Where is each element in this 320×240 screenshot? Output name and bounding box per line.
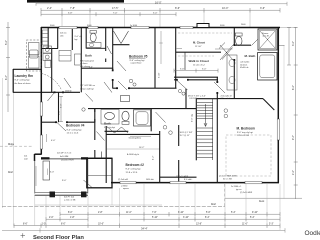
- svg-text:opener: opener: [123, 187, 129, 190]
- wic left wall: [175, 28, 177, 80]
- svg-text:16'-0": 16'-0": [155, 0, 162, 4]
- stair hall left wall: [178, 125, 180, 146]
- svg-text:5'-3": 5'-3": [269, 224, 274, 226]
- bath1 bottom wall: [86, 47, 106, 49]
- svg-text:42 x 48: 42 x 48: [263, 35, 269, 37]
- stair hall bottom wall: [160, 176, 197, 178]
- deck posts: [50, 192, 56, 198]
- m.bath toilet tank: [235, 33, 242, 36]
- bedroom4 top wall: [41, 121, 56, 123]
- window left wall bedroom4: [40, 135, 42, 149]
- wall x72.3: [71, 28, 73, 50]
- bedroom2 block walls: [106, 126, 160, 183]
- laundry door arc: [42, 74, 62, 91]
- svg-text:M. Closet: M. Closet: [193, 41, 205, 45]
- top row2 labels: [68, 12, 158, 14]
- svg-text:Laundry Rm: Laundry Rm: [15, 74, 34, 78]
- bedroom5 closet bottom: [113, 44, 130, 46]
- left wall jog: [35, 153, 42, 155]
- svg-text:A 1008 clg ht: A 1008 clg ht: [127, 153, 139, 156]
- svg-text:tile floor w/ drain: tile floor w/ drain: [15, 82, 32, 85]
- bedroom5 left wall: [112, 28, 114, 70]
- niche dim line x161: [159, 31, 163, 64]
- svg-text:16'-2": 16'-2": [139, 147, 145, 149]
- svg-text:12'-4 x 11'-6: 12'-4 x 11'-6: [67, 133, 80, 135]
- tray ceiling dashed: [226, 135, 271, 176]
- svg-text:8'-6": 8'-6": [175, 7, 180, 10]
- deck left rail: [34, 160, 36, 194]
- svg-text:Deck: Deck: [259, 201, 265, 203]
- exterior walls: [35, 27, 281, 183]
- top black header bar: [27, 0, 124, 3]
- svg-text:2'-2": 2'-2": [292, 170, 295, 175]
- top extension lines: [62, 11, 250, 27]
- svg-text:5'-4": 5'-4": [231, 212, 236, 214]
- laundry left wall: [12, 69, 14, 93]
- interior dim line x61: [59, 96, 63, 122]
- bay bump-out walls: [87, 158, 112, 188]
- svg-text:Bedroom #4: Bedroom #4: [66, 124, 85, 128]
- svg-text:Bath: Bath: [85, 54, 92, 58]
- svg-text:6'-4": 6'-4": [5, 75, 8, 80]
- svg-text:Bedroom #5: Bedroom #5: [129, 54, 148, 58]
- corridor wall upper: [174, 76, 218, 78]
- wic entry door X swings: [220, 45, 233, 60]
- svg-text:7'-8": 7'-8": [70, 7, 75, 10]
- roof dashed vertical right: [224, 184, 226, 207]
- svg-text:at 3660: at 3660: [121, 184, 127, 187]
- svg-text:17'-5": 17'-5": [112, 7, 118, 10]
- wall x81.3: [80, 28, 82, 92]
- svg-text:5'-10": 5'-10": [159, 72, 161, 78]
- svg-text:5'-6": 5'-6": [206, 212, 211, 214]
- toilet room bottom: [235, 44, 251, 46]
- bay door jamb ticks: [94, 152, 96, 159]
- svg-text:3'-0": 3'-0": [202, 69, 207, 71]
- corridor wall lower: [174, 79, 177, 81]
- bath2 vanity: [101, 110, 119, 125]
- svg-text:5'-6": 5'-6": [180, 69, 185, 71]
- svg-text:9'-0" clg: 9'-0" clg: [75, 36, 83, 38]
- interior walls bedroom5 block: [113, 28, 177, 89]
- svg-text:9'-0" ceiling hgt: 9'-0" ceiling hgt: [15, 79, 30, 82]
- wic shelf line left: [177, 48, 183, 50]
- svg-text:(2) 2x10 HDR: (2) 2x10 HDR: [176, 176, 189, 178]
- svg-text:1/2" GYP BD ea: 1/2" GYP BD ea: [80, 85, 96, 87]
- walk-in closet walls: [174, 28, 221, 183]
- laundry top wall: [13, 68, 41, 70]
- m.bath corner diagonal: [263, 99, 274, 110]
- bedroom2 closet bifold: [108, 127, 129, 133]
- svg-text:DN 16R: DN 16R: [190, 98, 198, 100]
- right short dim line: [287, 27, 291, 65]
- bedroom4 walls: [41, 109, 95, 123]
- right exterior wall: [277, 27, 279, 183]
- wic rod dashed: [178, 32, 232, 34]
- title scale marker: [21, 233, 26, 238]
- wic shelf line: [215, 48, 233, 50]
- svg-text:hgt: hgt: [75, 38, 78, 41]
- left exterior wall lower: [34, 154, 36, 161]
- svg-text:Bedroom #2: Bedroom #2: [126, 163, 145, 167]
- seating window sill: [130, 135, 151, 137]
- svg-text:8'-4": 8'-4": [205, 217, 210, 219]
- cabinet rect hall2: [75, 54, 82, 65]
- bottom overall dimension line: [2, 228, 285, 232]
- closet wall x48: [47, 28, 49, 49]
- laundry annex walls: [13, 69, 80, 93]
- bedroom2 right wall: [159, 131, 161, 183]
- bath1 right wall: [105, 28, 107, 51]
- symbol circles hall: [129, 79, 227, 134]
- linen cabinet: [121, 96, 130, 102]
- closet shelf stack: [42, 30, 48, 45]
- svg-text:shlv: shlv: [60, 36, 64, 38]
- bath2 tub: [134, 110, 151, 126]
- toilet room door swing: [252, 40, 258, 46]
- bath2 toilet: [122, 111, 129, 121]
- svg-text:1'-0": 1'-0": [42, 224, 47, 226]
- bottom dim labels row1: [68, 212, 258, 214]
- svg-text:6x10 BM: 6x10 BM: [60, 156, 68, 158]
- svg-text:5030 sldr: 5030 sldr: [146, 178, 154, 181]
- svg-text:Seating Area: Seating Area: [129, 136, 142, 139]
- svg-text:7'-6": 7'-6": [152, 212, 157, 214]
- svg-text:(2) 2x4 infill: (2) 2x4 infill: [118, 179, 128, 181]
- svg-text:Roof: Roof: [211, 204, 216, 206]
- svg-text:9'-0" ceiling hgt: 9'-0" ceiling hgt: [67, 128, 82, 131]
- svg-text:3'-6": 3'-6": [260, 7, 265, 10]
- roof outline dashed bottom: [2, 206, 225, 208]
- svg-text:cult marble: cult marble: [240, 61, 249, 64]
- bath1 toilet: [90, 33, 96, 42]
- left vertical dimension line: [6, 22, 10, 112]
- svg-text:1 hour wall hgt: 1 hour wall hgt: [80, 87, 94, 90]
- svg-text:Walk in Closet: Walk in Closet: [189, 59, 209, 63]
- wall x51.7: [51, 49, 53, 93]
- symbol circle hall2: [82, 108, 85, 111]
- svg-text:M. Bath: M. Bath: [245, 54, 256, 58]
- top dim labels row1: [47, 7, 265, 10]
- bedroom2 left wall: [105, 126, 107, 183]
- left exterior wall upper: [40, 27, 42, 155]
- hall closet door swing: [48, 93, 55, 101]
- wic door swing: [219, 43, 225, 49]
- svg-text:34'-4": 34'-4": [141, 226, 148, 230]
- svg-text:6x6 PT 4x4: 6x6 PT 4x4: [64, 197, 75, 199]
- roof ridge dashed left: [0, 145, 33, 147]
- bedroom2 interior dim line: [107, 148, 160, 150]
- bay inner line: [87, 174, 112, 176]
- m.bath tub: [258, 53, 277, 81]
- svg-text:Ridge: Ridge: [8, 144, 15, 146]
- door swing bath hall: [86, 94, 94, 102]
- top dimension line row2: [41, 12, 176, 16]
- hall and stair walls: [88, 89, 217, 183]
- svg-text:Bath: Bath: [104, 122, 111, 126]
- svg-text:11'-0": 11'-0": [126, 212, 132, 214]
- stair dn arrow: [205, 104, 207, 126]
- bedroom5 closet bifold: [114, 31, 129, 44]
- cabinet rect hall1: [59, 51, 71, 62]
- svg-text:15 T @ 11": 15 T @ 11": [180, 135, 191, 137]
- svg-text:a 2x6 x 1 SB: a 2x6 x 1 SB: [64, 200, 76, 202]
- svg-text:3'-2": 3'-2": [292, 41, 295, 46]
- svg-text:8'-6": 8'-6": [23, 224, 28, 226]
- left inner extension line: [1, 78, 3, 208]
- wall x217: [216, 77, 218, 82]
- wall x58.5 hall closet: [58, 92, 60, 122]
- wic divider wall y52: [176, 51, 221, 53]
- svg-text:2'-4": 2'-4": [89, 67, 93, 69]
- svg-text:4'-2": 4'-2": [153, 155, 155, 160]
- washer dryer pair: [43, 46, 52, 61]
- svg-text:9'-10": 9'-10": [252, 212, 258, 214]
- svg-text:Second Floor Plan: Second Floor Plan: [33, 235, 84, 240]
- wall connector x175.7: [175, 80, 177, 88]
- bottom dimension line row2: [46, 217, 280, 221]
- hall closet wall x186: [185, 89, 187, 109]
- bottom dimension line row3: [14, 224, 280, 228]
- deck door sill line: [50, 157, 82, 159]
- bedroom5 right wall x155: [154, 28, 156, 89]
- svg-text:13'-6 x 15'-8: 13'-6 x 15'-8: [237, 135, 250, 137]
- svg-text:5'-8": 5'-8": [68, 12, 73, 14]
- svg-text:5'-10": 5'-10": [152, 217, 158, 219]
- m.bath bottom wall: [217, 98, 263, 100]
- svg-text:8'-0": 8'-0": [68, 212, 73, 214]
- bedroom5 closet swing: [107, 46, 112, 54]
- svg-text:2x 3040: 2x 3040: [130, 25, 138, 27]
- m.bath toilet: [236, 36, 242, 45]
- bedroom4 dim tick: [46, 134, 48, 142]
- svg-text:M. Bedroom: M. Bedroom: [237, 126, 256, 130]
- washer dryer dashed recess: [26, 40, 41, 71]
- svg-text:W/D hookup bd: W/D hookup bd: [80, 61, 94, 63]
- top exterior wall: [41, 27, 280, 29]
- bath1 toilet tank: [90, 31, 96, 34]
- svg-text:5'-2": 5'-2": [5, 40, 8, 45]
- svg-text:7'-0": 7'-0": [113, 12, 118, 14]
- svg-text:3'-10": 3'-10": [183, 217, 189, 219]
- corridor dim line: [174, 69, 218, 73]
- svg-text:30 x 1 SB: 30 x 1 SB: [223, 178, 232, 180]
- svg-text:9'-0": 9'-0": [62, 180, 67, 182]
- bath2 left wall: [94, 109, 96, 112]
- svg-text:5'-4": 5'-4": [250, 217, 255, 219]
- svg-text:42x60 tub: 42x60 tub: [240, 66, 248, 69]
- bottom extension lines: [14, 92, 281, 230]
- bay top wall: [88, 157, 112, 159]
- m.bath left wall: [233, 28, 235, 45]
- svg-text:2x6 clo: 2x6 clo: [60, 33, 67, 35]
- bath1 vanity: [86, 42, 101, 47]
- right wall-to-dim connector: [280, 27, 297, 29]
- deck left rail inner: [35, 166, 37, 186]
- svg-text:5'-0": 5'-0": [153, 12, 158, 14]
- svg-text:16 R @ 7 3/4": 16 R @ 7 3/4": [180, 132, 193, 134]
- top dimension line row1: [41, 8, 280, 13]
- svg-text:4R @ 7 3/4" = 4'-0": 4R @ 7 3/4" = 4'-0": [188, 96, 206, 98]
- roof edge solid thin: [35, 204, 162, 206]
- washer dryer units: [29, 43, 40, 69]
- windows bottom wall: [120, 182, 262, 184]
- deck right rail: [87, 159, 89, 194]
- bath2 toilet tank: [122, 122, 129, 125]
- svg-text:8'-0 sldr t: 8'-0 sldr t: [184, 178, 193, 181]
- svg-text:2'-0": 2'-0": [49, 217, 54, 219]
- svg-text:4'-0": 4'-0": [51, 140, 56, 142]
- bedroom4 right wall: [94, 109, 96, 123]
- svg-text:16" oc bath: 16" oc bath: [221, 97, 232, 100]
- svg-text:carpet floor: carpet floor: [131, 62, 142, 65]
- svg-text:9'-0" clg hgt: 9'-0" clg hgt: [104, 126, 115, 129]
- top wall header labels: [50, 24, 246, 27]
- laundry bottom wall: [13, 91, 80, 93]
- bath1 left wall: [85, 28, 87, 49]
- m.bath shower: [258, 29, 277, 50]
- bedroom5 entry door swing: [117, 61, 126, 71]
- svg-text:11'-10 x 6'-2: 11'-10 x 6'-2: [193, 64, 206, 66]
- svg-text:2'-4": 2'-4": [47, 7, 52, 10]
- svg-text:9'-0" clg: 9'-0" clg: [192, 113, 194, 122]
- bath2 right wall: [150, 109, 152, 132]
- svg-text:3'-0": 3'-0": [50, 172, 54, 174]
- right wall sill tick: [279, 44, 285, 46]
- chimney bump on top wall: [197, 24, 209, 28]
- svg-text:Oodle: Oodle: [305, 230, 320, 237]
- svg-text:(2) 2x10 HDR: (2) 2x10 HDR: [61, 160, 74, 162]
- svg-text:9'-0" ceiling hgt: 9'-0" ceiling hgt: [126, 168, 141, 171]
- interior walls top-left block: [41, 28, 113, 92]
- svg-text:typ ea: typ ea: [236, 188, 242, 191]
- wic inner shelf wall: [184, 53, 186, 71]
- wic rod dashed lower: [178, 55, 214, 57]
- top overall dimension line: [36, 2, 287, 6]
- washer in recess: [30, 50, 39, 58]
- m.bath walls: [217, 28, 274, 110]
- svg-text:Shower: Shower: [262, 32, 269, 35]
- stairwell top: [196, 98, 217, 100]
- stairwell left wall: [195, 99, 197, 161]
- closet bottom wall y48.5: [41, 48, 58, 50]
- svg-text:9'-0" ceiling hgt: 9'-0" ceiling hgt: [130, 59, 145, 62]
- windows top wall: [59, 26, 193, 28]
- bottom exterior wall: [111, 182, 279, 184]
- wall x57.7: [57, 28, 59, 49]
- bath2 walls: [95, 109, 151, 159]
- svg-text:wall: wall: [24, 159, 28, 161]
- bath2 bottom wall: [105, 130, 129, 132]
- right extension line x284: [283, 45, 285, 199]
- window right wall: [277, 119, 279, 140]
- stair rail line: [212, 99, 214, 160]
- door jamb ticks: [54, 44, 236, 123]
- svg-text:2x6 walls @: 2x6 walls @: [221, 96, 232, 98]
- svg-text:Roof: Roof: [8, 172, 13, 174]
- bedroom4 bottom wall stubs: [41, 157, 50, 159]
- svg-text:11'-6": 11'-6": [242, 224, 248, 226]
- seating nook wall: [106, 133, 160, 135]
- svg-text:8'-2": 8'-2": [292, 85, 295, 90]
- chimney chase rect: [43, 161, 50, 180]
- svg-text:1'-8": 1'-8": [70, 217, 75, 219]
- svg-text:11'-10": 11'-10": [195, 46, 202, 48]
- svg-text:(2) 2x10 HDR: (2) 2x10 HDR: [240, 192, 253, 194]
- svg-text:8'-0": 8'-0": [61, 224, 66, 226]
- window left wall upper: [40, 102, 42, 116]
- m.bath vanity: [227, 55, 237, 90]
- svg-text:13'-8": 13'-8": [196, 224, 202, 226]
- svg-text:11'-8 x 12'-6: 11'-8 x 12'-6: [126, 172, 139, 174]
- svg-text:2x 2660 x 1: 2x 2660 x 1: [231, 186, 242, 188]
- hall wall y68.2: [81, 67, 113, 69]
- svg-text:10'-6": 10'-6": [98, 224, 104, 226]
- svg-text:(2) 2x10 HDR 4 BM: (2) 2x10 HDR 4 BM: [219, 175, 237, 177]
- stairs treads lower run: [197, 128, 213, 158]
- svg-text:2'-8": 2'-8": [98, 212, 103, 214]
- svg-text:2668 dr: 2668 dr: [65, 91, 72, 93]
- right vertical dimension line: [225, 27, 302, 199]
- svg-text:tub deck: tub deck: [240, 63, 247, 66]
- bath1 sink: [89, 43, 94, 47]
- dryer box: [45, 60, 51, 68]
- svg-text:5'-0": 5'-0": [61, 103, 63, 108]
- deck bottom rails: [35, 192, 88, 194]
- svg-text:9'-4": 9'-4": [292, 135, 295, 140]
- bottom dimension line row1: [60, 212, 280, 216]
- bath2 sink: [105, 112, 115, 119]
- bottom dim labels row2: [49, 217, 255, 219]
- hall bottom wall y108.6: [88, 108, 196, 110]
- stairs treads upper run: [197, 103, 213, 119]
- door swing diagonals: [57, 48, 233, 188]
- svg-text:2x6 DF #1 T+G: 2x6 DF #1 T+G: [57, 153, 72, 155]
- bedroom5 bottom wall y88: [113, 87, 117, 89]
- svg-text:9'-0" tray clg hgt: 9'-0" tray clg hgt: [237, 131, 253, 134]
- svg-text:10'-0": 10'-0": [222, 7, 228, 10]
- bottom dim labels row3: [23, 224, 274, 226]
